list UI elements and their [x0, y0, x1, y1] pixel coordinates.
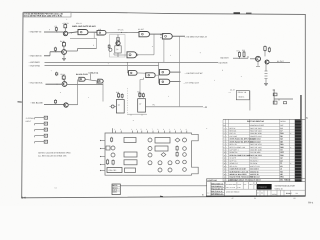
svg-text:TP4: TP4 [152, 103, 155, 106]
svg-text:RC07 GF 222J: RC07 GF 222J [250, 154, 261, 157]
svg-text:J1 CONN: J1 CONN [26, 117, 35, 120]
svg-text:C4: C4 [280, 127, 282, 130]
svg-text:52: 52 [254, 197, 256, 200]
svg-text:—IN1 VID IN A: —IN1 VID IN A [29, 81, 43, 84]
svg-text:K4 DRIVE: K4 DRIVE [219, 61, 229, 64]
svg-text:H4: H4 [280, 170, 282, 173]
svg-text:—IN4 BLANK: —IN4 BLANK [30, 101, 43, 104]
svg-text:DELAY LN: DELAY LN [238, 91, 247, 94]
svg-text:R22: R22 [280, 146, 283, 149]
svg-text:R9: R9 [280, 135, 282, 138]
svg-text:Q5: Q5 [280, 140, 282, 143]
svg-text:SCR PAN HD 4-40 X .38: SCR PAN HD 4-40 X .38 [230, 170, 249, 173]
svg-text:INPUT: INPUT [26, 120, 33, 123]
svg-text:CR4 CR5: CR4 CR5 [109, 169, 117, 172]
svg-text:DESIG: DESIG [280, 120, 286, 123]
svg-text:SN 5400 J: SN 5400 J [250, 157, 258, 160]
svg-text:—IN2 GATE: —IN2 GATE [29, 61, 41, 64]
svg-text:RC07 GF 202J: RC07 GF 202J [250, 127, 261, 130]
svg-text:JAN 2N 2222: JAN 2N 2222 [250, 140, 260, 143]
svg-text:60: 60 [294, 197, 296, 200]
svg-text:PART OR IDENT NO: PART OR IDENT NO [247, 120, 265, 123]
svg-text:Q2: Q2 [116, 48, 118, 51]
svg-text:—o: —o [228, 92, 231, 94]
svg-text:70B100: 70B100 [258, 186, 267, 189]
svg-text:PX 20 94: PX 20 94 [250, 162, 257, 165]
svg-text:+12V R1: +12V R1 [62, 22, 69, 25]
svg-text:NOMENCLATURE: NOMENCLATURE [250, 124, 265, 127]
svg-text:K2: K2 [280, 165, 282, 168]
svg-text:CK06 BX 103K: CK06 BX 103K [250, 132, 262, 135]
svg-text:A2 4K7: A2 4K7 [138, 28, 144, 31]
svg-text:CM05 FD 101J: CM05 FD 101J [250, 135, 262, 138]
svg-text:C4 BLK GA: C4 BLK GA [89, 71, 99, 74]
svg-text:Q6: Q6 [118, 103, 120, 106]
svg-text:CR7: CR7 [280, 151, 284, 154]
svg-text:R12: R12 [280, 132, 283, 135]
svg-text:→ K5 MOD OUT 4B2 J3: → K5 MOD OUT 4B2 J3 [184, 35, 207, 38]
svg-text:SN 5473 J: SN 5473 J [250, 159, 258, 162]
svg-text:VIDEO 4K: VIDEO 4K [275, 187, 284, 190]
svg-text:K4 OUT: K4 OUT [277, 60, 285, 63]
svg-text:CK06 BX 104K: CK06 BX 104K [250, 149, 262, 152]
svg-text:AMPL AND GATE A1 4K2: AMPL AND GATE A1 4K2 [72, 25, 97, 28]
svg-text:47: 47 [232, 197, 234, 200]
svg-text:—IN6 CAR IN: —IN6 CAR IN [29, 54, 42, 57]
svg-text:WSHR LK NO4 CRES: WSHR LK NO4 CRES [230, 173, 248, 176]
svg-text:RC07 GF 472J: RC07 GF 472J [250, 143, 261, 146]
svg-text:MOD 4: MOD 4 [239, 96, 245, 99]
svg-text:ALL RES VALUES IN OHMS ±5%: ALL RES VALUES IN OHMS ±5% [38, 155, 67, 158]
svg-text:CONN PCB 15 CONT: CONN PCB 15 CONT [230, 168, 248, 171]
svg-text:MS3 53 38: MS3 53 38 [250, 173, 258, 176]
svg-text:W1: W1 [280, 178, 283, 181]
svg-text:D-4: D-4 [22, 197, 27, 200]
svg-text:70B100: 70B100 [284, 179, 290, 182]
svg-text:H5: H5 [280, 173, 282, 176]
svg-text:A4: A4 [280, 159, 282, 162]
svg-text:→4: →4 [203, 106, 208, 109]
svg-text:→ K6 GATE OUT 4C: → K6 GATE OUT 4C [184, 72, 203, 75]
svg-text:1/1: 1/1 [296, 192, 298, 195]
svg-text:TP1 4K: TP1 4K [118, 29, 125, 32]
svg-text:JAN 2N 1613: JAN 2N 1613 [250, 138, 260, 141]
svg-text:TR-4: TR-4 [308, 202, 314, 205]
svg-text:B 9-1-65 REV PER ECN 1452 SHT: B 9-1-65 REV PER ECN 1452 SHT 2 R.W. [24, 15, 62, 18]
svg-text:CONTR NO: CONTR NO [207, 179, 217, 182]
svg-text:B4 GATE: B4 GATE [221, 57, 230, 60]
svg-text:NOTES: UNLESS OTHERWISE SPEC: NOTES: UNLESS OTHERWISE SPEC [38, 151, 71, 154]
svg-text:4: 4 [90, 25, 91, 28]
svg-text:T1: T1 [280, 162, 282, 165]
svg-text:C7: C7 [280, 129, 282, 132]
svg-text:R7: R7 [55, 25, 57, 28]
svg-text:C9: C9 [280, 149, 282, 152]
svg-text:K4: K4 [55, 186, 57, 189]
svg-text:RES FIX COMP 2.2K OHM: RES FIX COMP 2.2K OHM [230, 154, 251, 157]
svg-text:R21: R21 [237, 49, 240, 52]
svg-text:R22: R22 [242, 49, 245, 52]
svg-text:R21: R21 [280, 143, 283, 146]
svg-text:B4 VID GATE: B4 VID GATE [76, 73, 88, 76]
svg-text:APPD 8-30: APPD 8-30 [228, 179, 237, 182]
svg-text:Q7: Q7 [139, 103, 141, 106]
svg-text:Z1 4T: Z1 4T [230, 88, 234, 91]
svg-text:Q4: Q4 [280, 138, 282, 141]
svg-text:M24 308 /2: M24 308 /2 [250, 168, 259, 171]
svg-text:R30: R30 [280, 154, 283, 157]
svg-text:—IN5 REF IN: —IN5 REF IN [29, 31, 42, 34]
svg-text:—IN3 SYNC: —IN3 SYNC [29, 64, 41, 67]
svg-text:SCHEM MODULATOR: SCHEM MODULATOR [275, 185, 296, 188]
svg-text:J1: J1 [280, 168, 282, 171]
svg-text:→ K7 SYNC OUT: → K7 SYNC OUT [183, 81, 200, 84]
svg-text:KHP 17 D11: KHP 17 D11 [250, 165, 259, 168]
svg-text:RC07 GF 103J: RC07 GF 103J [250, 129, 261, 132]
svg-text:A2: A2 [280, 157, 282, 160]
svg-text:SCALE: SCALE [286, 192, 293, 195]
svg-text:RC07 GF 102J: RC07 GF 102J [250, 146, 261, 149]
svg-text:JAN 1N 4454: JAN 1N 4454 [250, 151, 260, 154]
svg-text:MS3 52 06: MS3 52 06 [250, 170, 258, 173]
